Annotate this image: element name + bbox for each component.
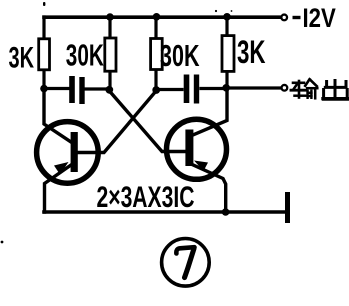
svg-text:3K: 3K <box>237 34 266 70</box>
svg-text:3K: 3K <box>9 41 35 74</box>
svg-text:30K: 30K <box>66 37 104 72</box>
svg-text:2×3AX3IC: 2×3AX3IC <box>97 181 195 214</box>
svg-text:30K: 30K <box>160 38 200 73</box>
svg-text:I2V: I2V <box>303 3 337 33</box>
